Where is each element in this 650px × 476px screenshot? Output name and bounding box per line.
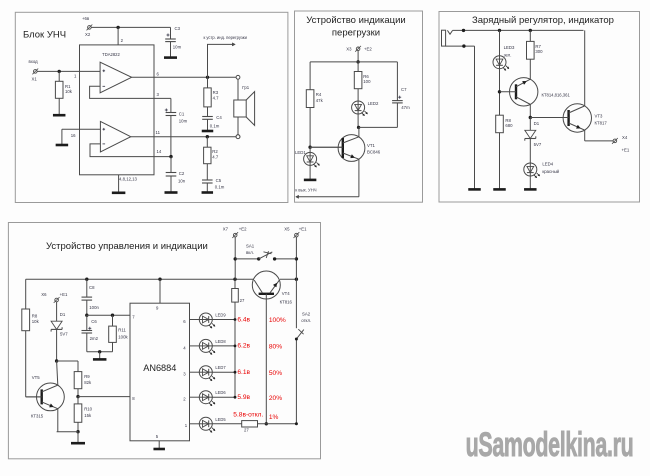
svg-text:10k: 10k — [65, 89, 73, 94]
svg-text:5.8в-откл.: 5.8в-откл. — [233, 411, 263, 418]
svg-text:VT3: VT3 — [595, 114, 603, 119]
svg-text:LED1: LED1 — [295, 150, 306, 155]
svg-text:X6: X6 — [41, 292, 47, 297]
svg-text:+Е2: +Е2 — [364, 47, 372, 52]
svg-text:к устр. инд. перегрузки: к устр. инд. перегрузки — [204, 35, 247, 40]
svg-text:КТ816: КТ816 — [280, 300, 293, 305]
svg-text:D1: D1 — [60, 312, 66, 317]
svg-text:10n: 10n — [178, 179, 186, 184]
svg-text:4,8,12,13: 4,8,12,13 — [119, 176, 138, 181]
svg-text:LED8: LED8 — [215, 339, 226, 344]
svg-text:VT1: VT1 — [367, 143, 375, 148]
svg-text:SA2: SA2 — [302, 311, 311, 316]
svg-text:uSamodelkina.ru: uSamodelkina.ru — [466, 426, 634, 464]
svg-text:680: 680 — [505, 123, 513, 128]
svg-text:100: 100 — [363, 79, 371, 84]
svg-text:27: 27 — [244, 428, 249, 433]
svg-text:47m: 47m — [401, 105, 410, 110]
svg-text:R7: R7 — [535, 44, 541, 49]
svg-text:X1: X1 — [32, 76, 38, 81]
svg-text:6.2в: 6.2в — [237, 343, 250, 350]
svg-text:0.1m: 0.1m — [210, 124, 220, 129]
svg-text:5V7: 5V7 — [60, 331, 68, 336]
svg-text:6.1в: 6.1в — [237, 369, 250, 376]
svg-text:VT5: VT5 — [32, 375, 40, 380]
svg-text:к вых. УНЧ: к вых. УНЧ — [295, 187, 316, 192]
svg-text:откл.: откл. — [301, 318, 311, 323]
svg-text:C1: C1 — [179, 111, 185, 116]
svg-text:+Е2: +Е2 — [239, 227, 247, 232]
svg-text:вкл.: вкл. — [246, 250, 254, 255]
svg-text:Зарядный регулятор, индикатор: Зарядный регулятор, индикатор — [472, 15, 614, 26]
svg-text:80%: 80% — [269, 344, 282, 351]
svg-text:47k: 47k — [316, 98, 324, 103]
svg-text:LED9: LED9 — [215, 313, 226, 318]
svg-text:+6в: +6в — [82, 16, 90, 21]
svg-text:C3: C3 — [175, 26, 181, 31]
svg-text:AN6884: AN6884 — [143, 363, 176, 373]
svg-text:R8: R8 — [505, 118, 511, 123]
svg-text:красный: красный — [542, 169, 559, 174]
svg-text:перегрузки: перегрузки — [332, 27, 380, 38]
svg-text:100%: 100% — [269, 317, 286, 324]
svg-text:LED4: LED4 — [542, 161, 553, 166]
svg-text:5V7: 5V7 — [534, 142, 542, 147]
svg-text:11: 11 — [156, 130, 161, 135]
svg-text:6.4в: 6.4в — [237, 316, 250, 323]
svg-text:82k: 82k — [84, 380, 92, 385]
svg-text:Устройство управления и индика: Устройство управления и индикации — [46, 241, 208, 252]
svg-text:+Е1: +Е1 — [299, 227, 307, 232]
svg-text:+Е1: +Е1 — [622, 147, 630, 152]
svg-text:1%: 1% — [269, 414, 279, 421]
svg-text:D1: D1 — [534, 121, 540, 126]
svg-text:Блок УНЧ: Блок УНЧ — [23, 30, 66, 41]
svg-text:TDA2822: TDA2822 — [102, 52, 120, 57]
svg-text:10m: 10m — [173, 45, 182, 50]
svg-text:X5: X5 — [284, 227, 290, 232]
svg-text:C2: C2 — [179, 171, 185, 176]
svg-text:LED3: LED3 — [504, 45, 515, 50]
svg-text:SA1: SA1 — [246, 243, 255, 248]
svg-text:R11: R11 — [118, 327, 126, 332]
svg-text:LED6: LED6 — [215, 390, 226, 395]
svg-text:R4: R4 — [316, 92, 322, 97]
svg-text:R10: R10 — [84, 406, 92, 411]
svg-text:X7: X7 — [223, 227, 229, 232]
svg-text:10m: 10m — [179, 118, 188, 123]
svg-text:4.7: 4.7 — [212, 154, 219, 159]
svg-text:+Е1: +Е1 — [60, 292, 68, 297]
svg-text:Устройство индикации: Устройство индикации — [306, 15, 405, 26]
svg-text:2m2: 2m2 — [90, 336, 99, 341]
svg-text:КТ814,816,361: КТ814,816,361 — [542, 92, 571, 97]
svg-text:50%: 50% — [269, 370, 282, 377]
svg-text:100n: 100n — [89, 305, 99, 310]
svg-text:300: 300 — [535, 49, 543, 54]
svg-text:LED7: LED7 — [215, 365, 226, 370]
svg-text:5.9в: 5.9в — [237, 394, 250, 401]
svg-text:15k: 15k — [84, 413, 92, 418]
svg-text:X4: X4 — [622, 135, 628, 140]
svg-text:C5: C5 — [216, 178, 222, 183]
svg-text:X2: X2 — [85, 32, 91, 37]
svg-text:вход: вход — [29, 59, 39, 64]
svg-text:КТ817: КТ817 — [595, 120, 608, 125]
svg-text:C4: C4 — [216, 115, 222, 120]
svg-text:10k: 10k — [32, 319, 40, 324]
svg-text:R2: R2 — [212, 149, 218, 154]
svg-text:R3: R3 — [213, 90, 219, 95]
svg-text:VT4: VT4 — [282, 291, 290, 296]
svg-text:C6: C6 — [91, 319, 97, 324]
svg-text:100k: 100k — [118, 335, 128, 340]
svg-text:X3: X3 — [346, 47, 352, 52]
svg-text:КТ315: КТ315 — [31, 414, 44, 419]
svg-text:R9: R9 — [84, 374, 90, 379]
svg-text:14: 14 — [157, 149, 162, 154]
svg-text:Гр1: Гр1 — [242, 85, 249, 90]
svg-text:20%: 20% — [269, 395, 282, 402]
svg-text:LED5: LED5 — [215, 417, 226, 422]
svg-text:BC846: BC846 — [367, 149, 381, 154]
svg-text:4.7: 4.7 — [213, 96, 220, 101]
svg-text:зел.: зел. — [504, 53, 512, 58]
svg-text:0.1m: 0.1m — [215, 185, 225, 190]
svg-text:27: 27 — [240, 298, 245, 303]
svg-text:C8: C8 — [89, 285, 95, 290]
svg-text:C7: C7 — [401, 87, 407, 92]
svg-text:LED2: LED2 — [368, 101, 379, 106]
svg-text:16: 16 — [71, 133, 76, 138]
